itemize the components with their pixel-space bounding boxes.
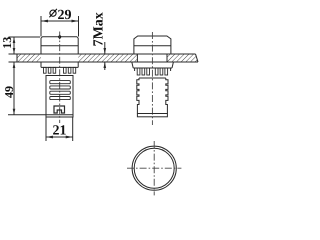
dim 7Max xyxy=(104,42,107,70)
dim text D29 xyxy=(49,8,71,23)
center diamond xyxy=(58,34,62,39)
left body xyxy=(46,76,73,118)
dim 21 xyxy=(46,118,73,142)
left flange with latch teeth xyxy=(41,62,78,73)
left view head xyxy=(41,37,78,54)
dim 13 xyxy=(9,37,41,54)
svg-text:21: 21 xyxy=(53,123,67,138)
dim line D29 xyxy=(41,16,79,37)
panel hatched cross-section xyxy=(17,54,198,62)
right body neck in hole xyxy=(137,54,167,62)
right centerline xyxy=(151,32,153,125)
right view head xyxy=(134,36,171,54)
right base plate xyxy=(137,114,167,117)
terminal notch xyxy=(54,106,65,113)
svg-text:7Max: 7Max xyxy=(92,12,107,46)
left centerline xyxy=(59,32,61,124)
circle centerlines xyxy=(127,141,181,195)
right flange xyxy=(132,62,174,75)
svg-text:13: 13 xyxy=(0,37,14,49)
bottom circle view xyxy=(132,146,176,190)
dim 49 xyxy=(8,62,46,115)
right threaded body xyxy=(137,78,168,114)
body vent slots xyxy=(50,81,71,100)
svg-text:49: 49 xyxy=(2,86,16,98)
